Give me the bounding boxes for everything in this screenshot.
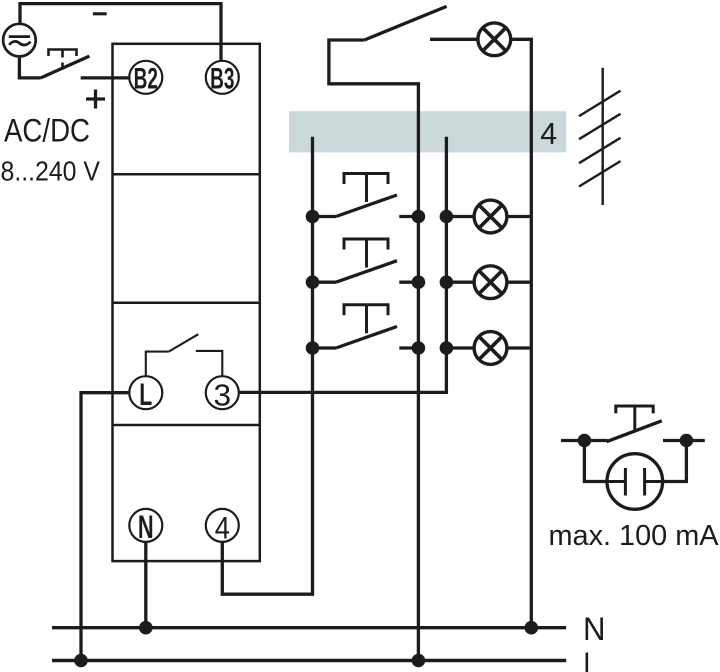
wire lamp E3 to N column [507,281,532,284]
junction S5 left [578,434,592,448]
top switch S1 left lead and push-button column [329,40,419,661]
wire from L to L-bus [81,393,129,661]
svg-text:4: 4 [215,510,230,546]
L bus [52,659,566,662]
svg-text:4: 4 [540,116,557,151]
wire to B2 [81,76,130,79]
push-button S2 [313,174,419,217]
terminal L [129,376,162,409]
relay contact L-3 inside device [146,334,223,376]
wire source bottom to control switch [19,57,40,78]
glow lamp H1 [607,454,663,510]
svg-text:max. 100 mA: max. 100 mA [549,520,719,552]
svg-text:L: L [139,376,152,412]
wire from 4 up to push-button column [222,137,312,595]
wire switch to lamp E1 [430,38,478,41]
svg-text:3: 3 [214,378,232,413]
wire lamp E3 feed [446,281,474,284]
junction button column on L [412,654,426,668]
junction row2 lamp [440,275,454,289]
svg-text:B2: B2 [134,62,158,95]
device divider 2 [113,301,260,304]
wire lamp E1 to N column [511,39,532,627]
wire lamp E2 feed [446,215,474,218]
control push switch S0 blade [41,56,90,78]
lamp E4 [474,332,507,365]
junction row3 lamp [440,341,454,355]
push-button S4 [313,305,419,348]
junction row3 left [306,341,320,355]
lamp E2 [474,200,507,233]
terminal 4 [206,509,239,542]
terminal B2 [129,61,162,94]
N bus [52,626,566,629]
svg-text:B3: B3 [210,62,234,95]
terminal N [129,509,162,542]
plus label [86,90,105,109]
wire from 3 up to lamp column [239,137,447,393]
junction N wire [139,621,153,635]
cable hatch symbol (4 conductors) [579,68,621,205]
junction row1 lamp [440,210,454,224]
svg-text:AC/DC: AC/DC [4,113,90,149]
wires to glow lamp [584,441,607,482]
wire lamp E4 feed [446,346,474,349]
AC/DC source G1 [3,24,36,57]
svg-text:L: L [583,646,599,672]
illuminated push-button S5 [561,406,705,442]
wire lamp E4 to N column [507,346,532,349]
top switch S1 blade [364,6,446,40]
junction row2 left [306,275,320,289]
junction L wire [74,654,88,668]
wire from N to N-bus [144,542,147,628]
push-button S3 [313,239,419,282]
junction row1 mid [412,210,426,224]
device divider 3 [113,424,260,427]
junction row2 mid [412,275,426,289]
svg-text:N: N [583,611,606,647]
lamp E1 [478,23,511,56]
wire lamp E2 to N column [507,215,532,218]
control switch actuator [49,50,77,69]
junction row1 left [306,210,320,224]
device body (timer relay) [113,44,260,561]
highlighted band (floor marker) [289,111,566,152]
junction lamp column on N [525,621,539,635]
junction row3 mid [412,341,426,355]
minus label [93,12,107,15]
wire from source top to B3 [20,4,221,61]
svg-text:N: N [138,509,154,545]
svg-text:8...240 V: 8...240 V [1,155,101,186]
device divider 1 [113,173,260,176]
lamp E3 [474,266,507,299]
terminal 3 [206,376,239,409]
terminal B3 [206,61,239,94]
junction S5 right [680,434,694,448]
